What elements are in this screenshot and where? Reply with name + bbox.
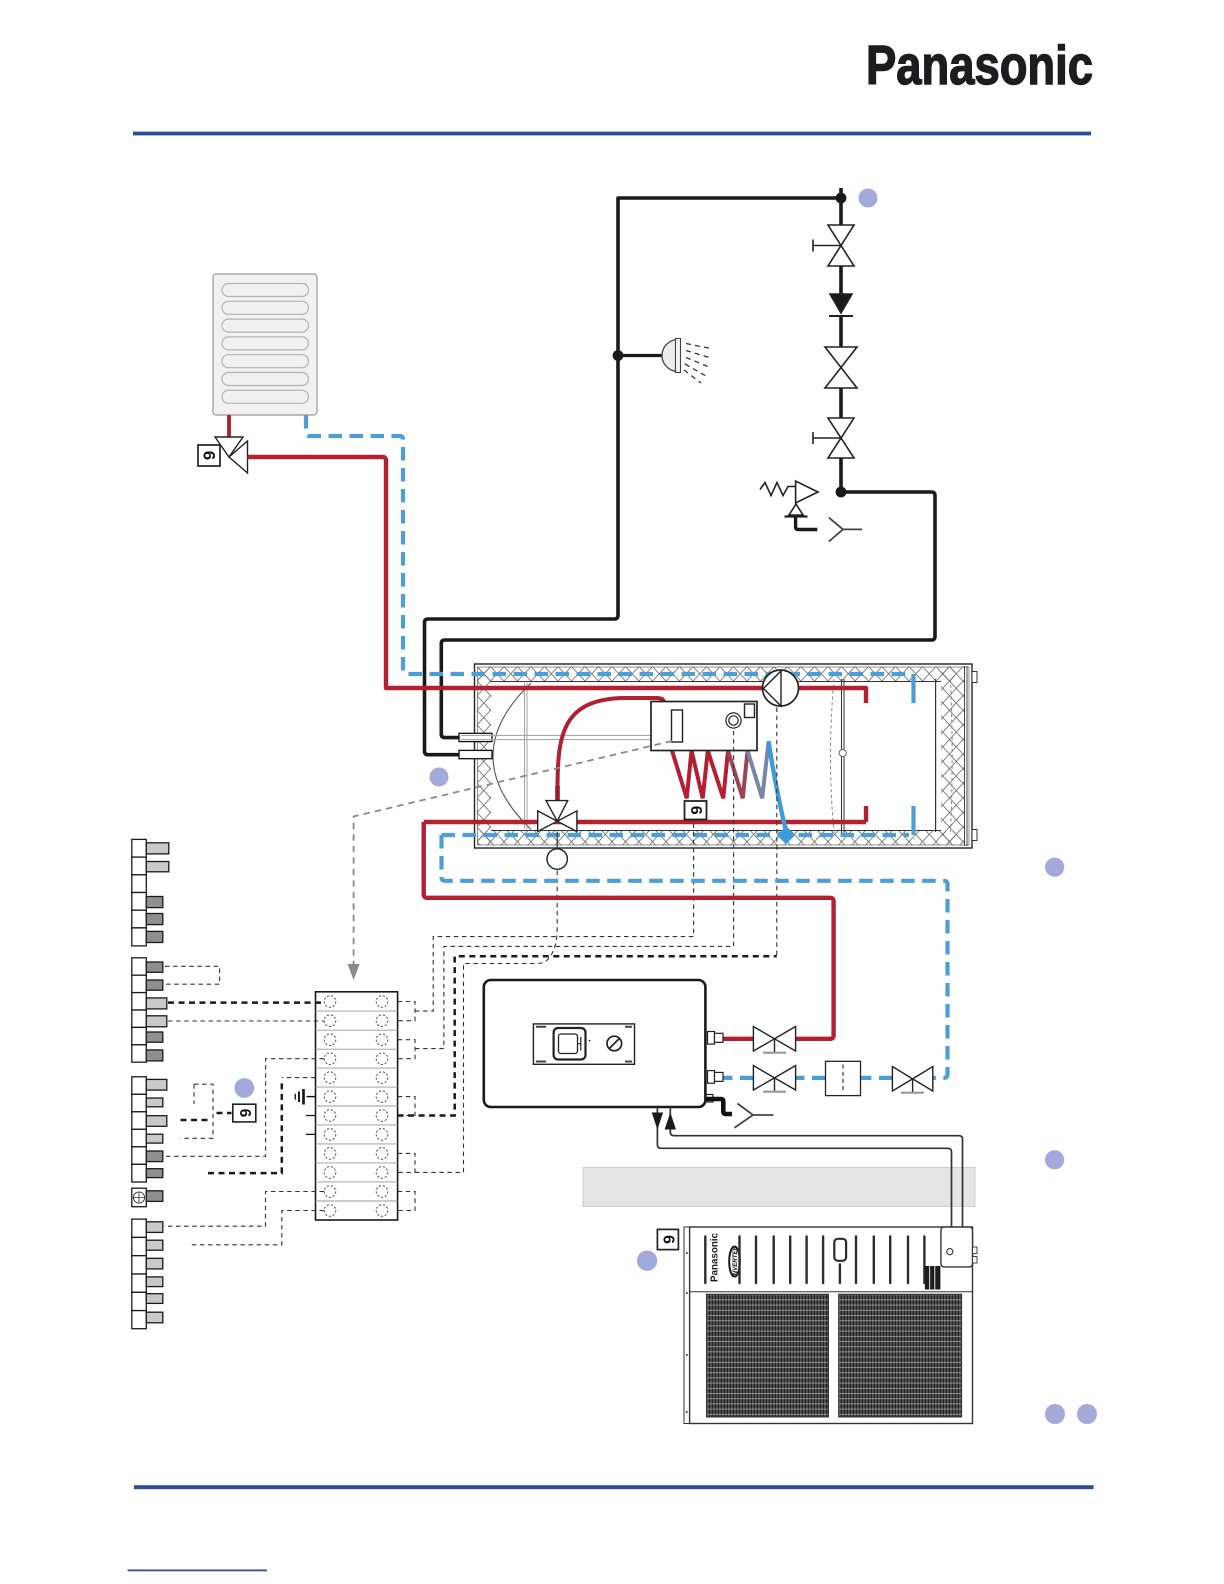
- wall section: [583, 1168, 975, 1207]
- wire right stubs: [398, 1002, 415, 1021]
- tank end caps: [493, 683, 531, 830]
- tank mounting tabs: [972, 672, 977, 683]
- outdoor unit: [684, 1227, 977, 1424]
- wire pump sensor: [776, 708, 778, 957]
- radiator valve: [215, 437, 248, 473]
- label 6 outdoor: [657, 1229, 678, 1249]
- hydro drain pipe: [706, 1099, 732, 1114]
- valve DHW shutoff: [753, 1027, 795, 1053]
- wire label6 frame: [181, 1084, 214, 1138]
- svg-text:6: 6: [659, 1235, 676, 1244]
- valve V3 shutoff: [828, 418, 854, 458]
- wire jumper B1-B2: [165, 966, 220, 984]
- relief valve: [796, 481, 818, 503]
- node junction shower: [613, 350, 624, 361]
- wire trunk C to pump (bold): [398, 956, 777, 1115]
- wire control callout (grey dashed arrow): [354, 741, 672, 966]
- terminal group D: [132, 1219, 163, 1329]
- tank ports: [459, 733, 492, 741]
- heater control box: [651, 702, 757, 751]
- wire valve-column segments: [839, 188, 843, 492]
- wiring dashed bold: [168, 956, 777, 1173]
- wire coil feed (red curve): [558, 698, 665, 791]
- valve actuator: [556, 832, 558, 849]
- wire heating flow (red) radiator to tank: [248, 457, 867, 703]
- callout dots: [234, 189, 1097, 1425]
- strainer box: [826, 1061, 861, 1095]
- svg-text:6: 6: [687, 806, 704, 815]
- wire coil to cold dip (blue): [769, 741, 787, 831]
- terminal group B: [132, 958, 167, 1062]
- wire shower riser to tank: [425, 356, 619, 755]
- wire B4 to row2: [168, 1020, 324, 1022]
- pump: [763, 670, 799, 706]
- node cold dip diamond: [777, 826, 795, 844]
- wiring dashed thin: [164, 708, 777, 1245]
- relief tundish: [829, 518, 862, 542]
- wire row11 to D1: [164, 1192, 324, 1227]
- wire row5 stub: [282, 1077, 316, 1079]
- footnote rule: [128, 1570, 268, 1572]
- valve V2 reducing: [825, 347, 857, 388]
- wire heating flow (red) radiator stub: [227, 415, 231, 437]
- footer rule: [134, 1485, 1094, 1489]
- label 6 radiator valve: [198, 445, 220, 466]
- flow arrow down: [652, 1113, 663, 1130]
- hydromodule: [484, 980, 723, 1107]
- valve cold shutoff 2: [892, 1067, 932, 1093]
- terminal ground cell: [132, 1188, 163, 1207]
- wire row4 to C5: [164, 1059, 324, 1157]
- svg-text:INVERTER: INVERTER: [732, 1245, 739, 1277]
- header rule: [133, 132, 1091, 136]
- 3-way valve: [538, 801, 577, 832]
- check valve: [830, 294, 852, 313]
- heater element tube: [461, 735, 651, 739]
- wire DHW red to hydromodule: [424, 822, 834, 1039]
- tank diffuser pipes: [525, 683, 528, 829]
- outdoor pipe cover: [941, 1227, 973, 1267]
- terminal strip: [316, 992, 398, 1220]
- valve cold shutoff 1: [753, 1066, 795, 1092]
- svg-text:6: 6: [200, 451, 219, 460]
- outdoor handle: [834, 1239, 846, 1261]
- outdoor vent slots: [705, 1237, 924, 1284]
- outdoor fan grille right: [839, 1294, 962, 1417]
- refrigerant pipe gas: [670, 1107, 962, 1227]
- row7-8 solid stubs: [306, 1116, 316, 1135]
- tank body: [475, 664, 978, 848]
- wire trunk A to coil sensor: [415, 820, 694, 1011]
- hydro tundish: [735, 1104, 774, 1128]
- heater coil: [672, 751, 728, 799]
- wire relief-to-tank pipe: [441, 492, 935, 738]
- label 6 wiring: [233, 1104, 256, 1122]
- shower head: [662, 339, 713, 384]
- terminal group C: [132, 1077, 167, 1182]
- terminal group A: [132, 839, 169, 946]
- svg-text:Panasonic: Panasonic: [866, 34, 1093, 96]
- ground symbol: [295, 1089, 316, 1105]
- node junction relief: [836, 487, 847, 498]
- relief drain pipe: [796, 517, 818, 530]
- wire label6 bold stubs: [181, 1119, 209, 1122]
- wire row12 to D2: [190, 1211, 325, 1245]
- node junction top: [836, 193, 847, 204]
- valve V1 shutoff: [828, 225, 854, 266]
- svg-text:Panasonic: Panasonic: [710, 1232, 721, 1282]
- svg-text:6: 6: [236, 1109, 253, 1118]
- flow arrow up: [665, 1113, 676, 1130]
- wire B3 to row1 (bold): [168, 1001, 324, 1004]
- wire shower stub: [618, 354, 663, 357]
- wire C6 to row5 (bold): [208, 1083, 282, 1173]
- radiator: [213, 274, 317, 415]
- wire DHW out (red) tank bottom: [424, 806, 866, 822]
- wire trunk B to heater box: [415, 729, 734, 1049]
- wire cold blue to hydromodule: [442, 835, 948, 1078]
- wire cold feed (blue dashed) tank bottom: [442, 833, 910, 837]
- outdoor terminal block: [925, 1266, 941, 1290]
- outdoor fan grille left: [707, 1294, 829, 1417]
- refrigerant pipe liquid: [657, 1107, 951, 1227]
- wire cold-main top run: [618, 198, 841, 356]
- wire heating return (blue dashed) radiator to tank: [306, 415, 909, 674]
- wire trunk D to 3way valve: [415, 870, 557, 1173]
- label 6 coil: [685, 801, 707, 820]
